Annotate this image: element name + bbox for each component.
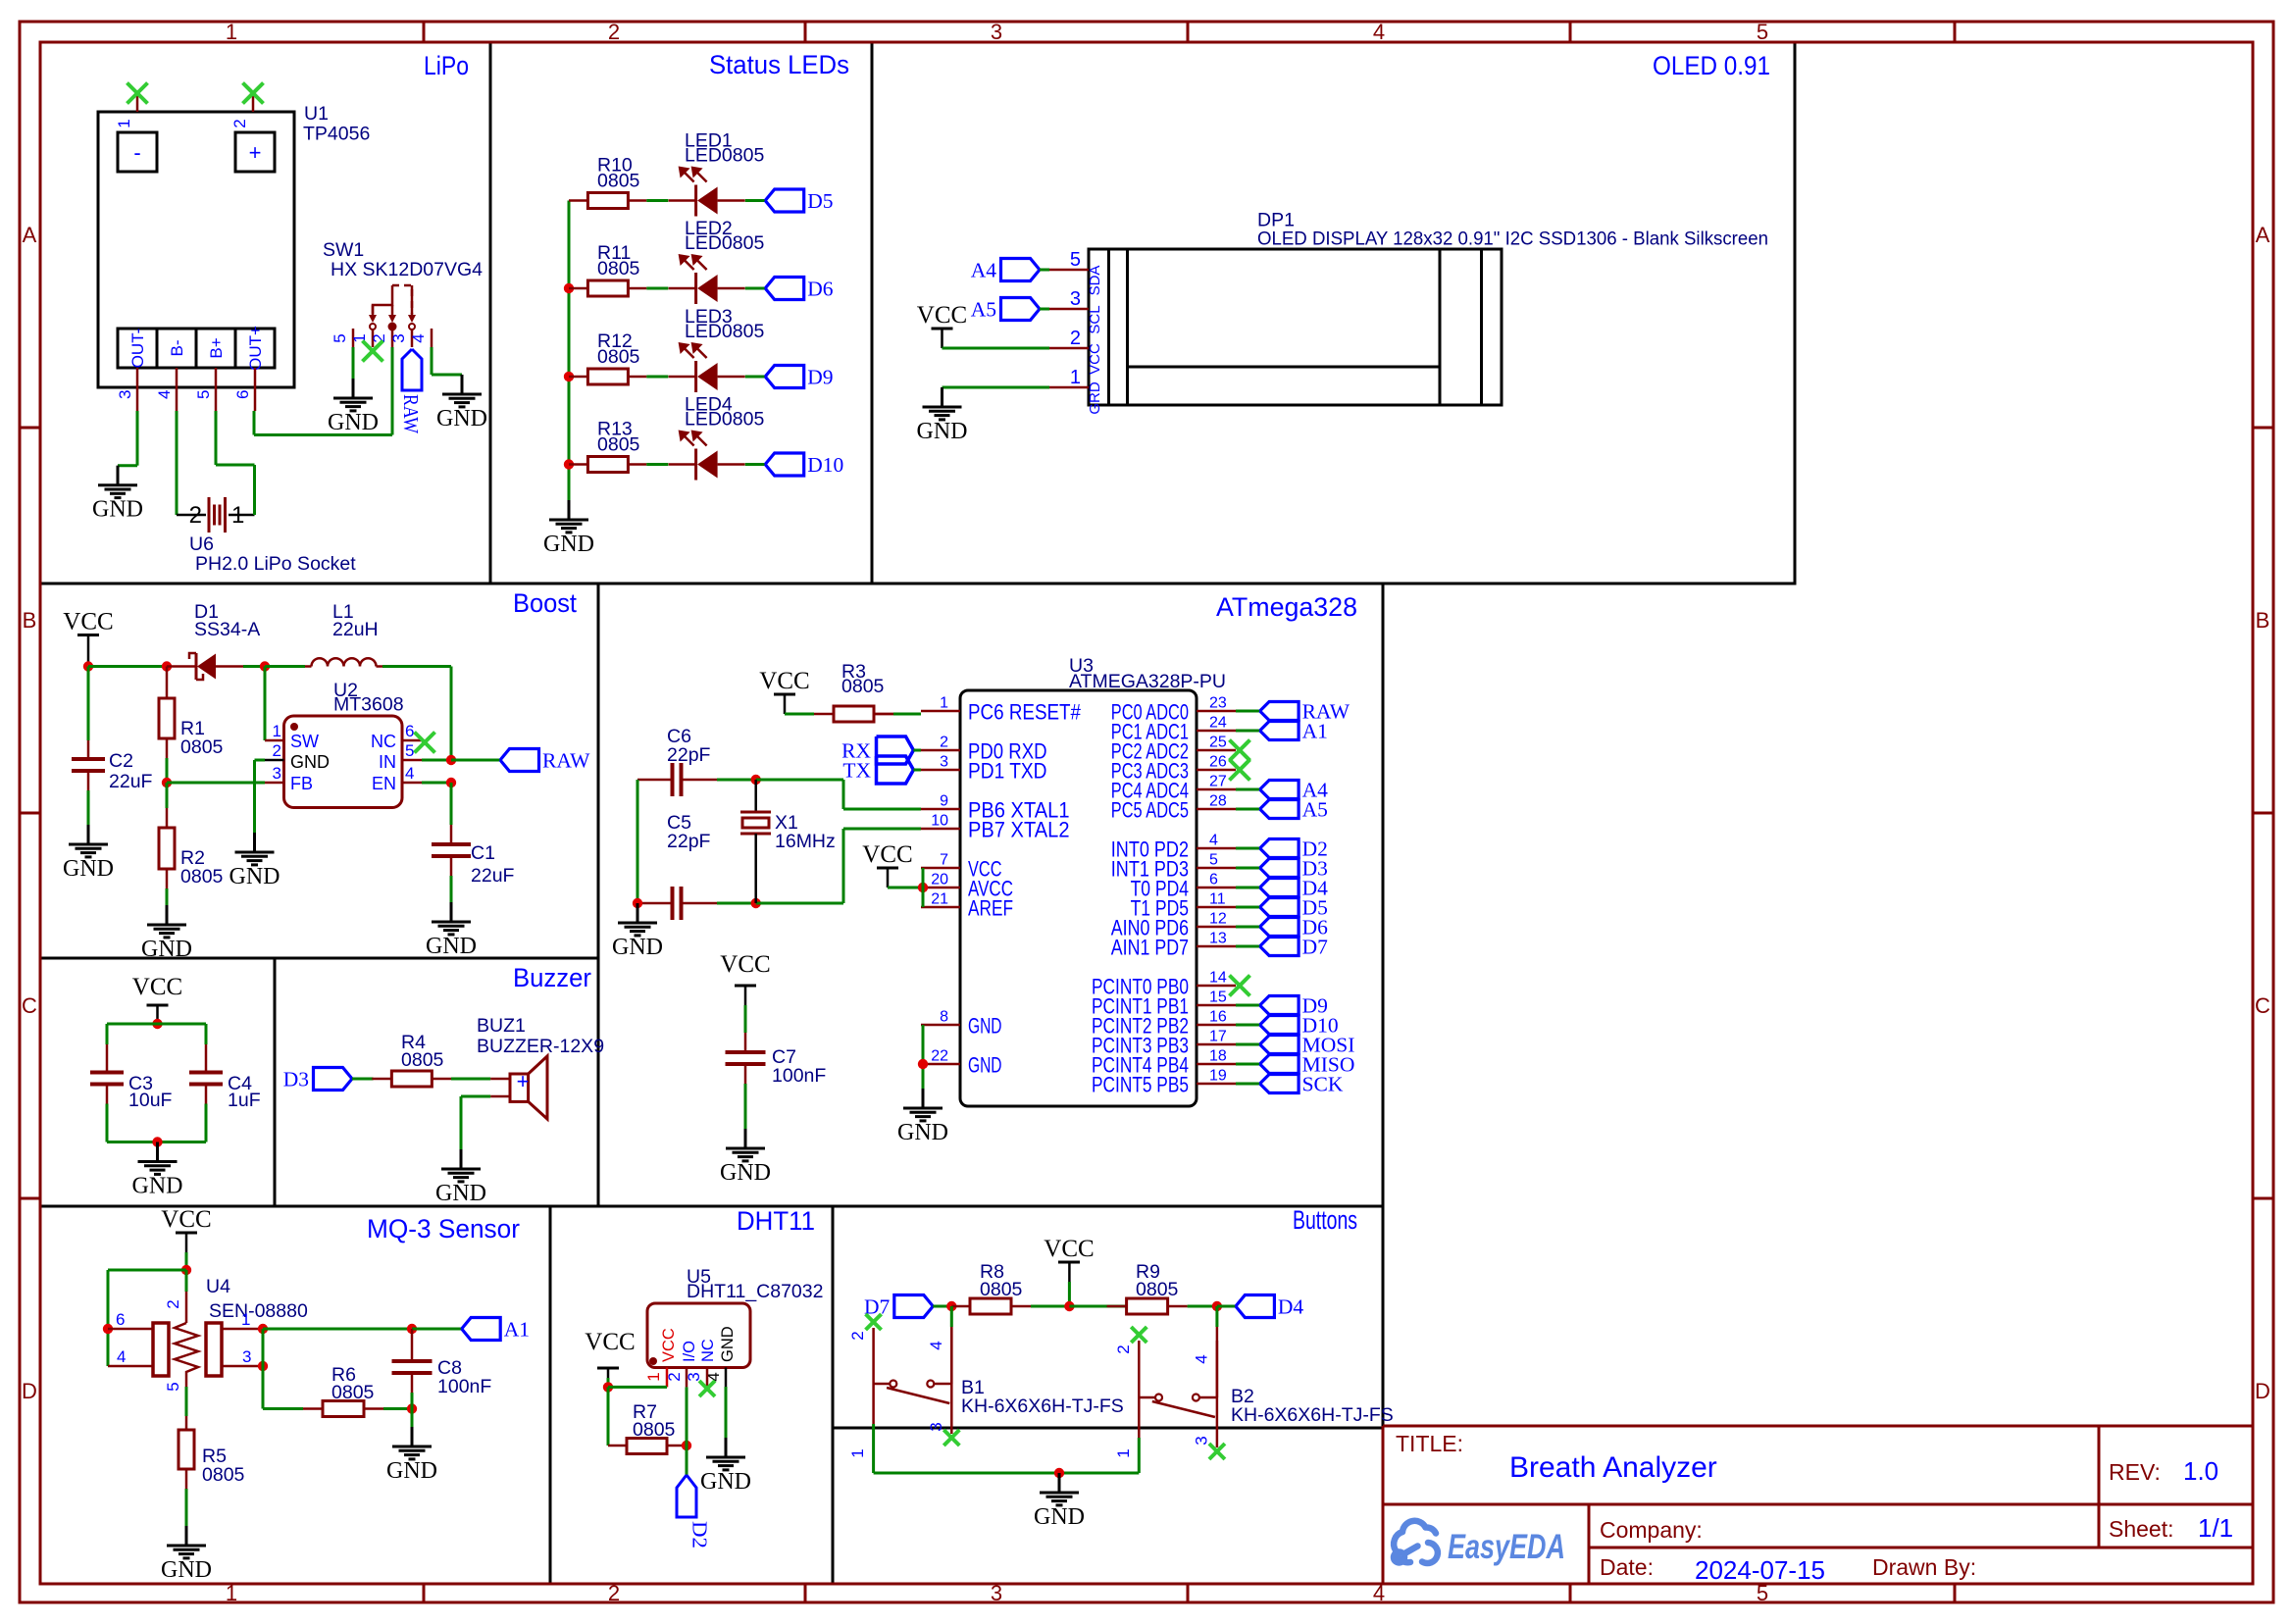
svg-text:GND: GND <box>426 934 477 959</box>
svg-text:5: 5 <box>194 390 213 399</box>
svg-text:GND: GND <box>720 1160 771 1186</box>
svg-text:22pF: 22pF <box>667 831 711 852</box>
svg-text:3: 3 <box>242 1347 251 1366</box>
svg-text:KH-6X6X6H-TJ-FS: KH-6X6X6H-TJ-FS <box>961 1396 1124 1417</box>
svg-text:4: 4 <box>155 390 174 399</box>
svg-text:4: 4 <box>405 764 414 783</box>
svg-text:GND: GND <box>700 1469 751 1495</box>
svg-text:BUZ1: BUZ1 <box>477 1015 526 1037</box>
svg-text:Drawn By:: Drawn By: <box>1872 1554 1976 1580</box>
svg-text:OLED DISPLAY 128x32 0.91" I2C: OLED DISPLAY 128x32 0.91" I2C SSD1306 - … <box>1257 229 1768 250</box>
svg-text:16: 16 <box>1209 1009 1227 1026</box>
svg-text:3: 3 <box>940 754 948 771</box>
svg-text:GND: GND <box>161 1557 212 1583</box>
svg-text:Company:: Company: <box>1600 1517 1703 1543</box>
svg-text:0805: 0805 <box>980 1279 1023 1300</box>
svg-text:TP4056: TP4056 <box>303 124 370 145</box>
svg-text:GND: GND <box>1034 1504 1085 1530</box>
svg-text:A1: A1 <box>504 1318 530 1342</box>
svg-text:22pF: 22pF <box>667 744 711 766</box>
svg-text:DHT11_C87032: DHT11_C87032 <box>687 1281 823 1302</box>
svg-text:C: C <box>2255 993 2270 1018</box>
svg-text:-: - <box>133 140 140 165</box>
svg-text:22uF: 22uF <box>109 771 153 792</box>
svg-text:D5: D5 <box>807 189 833 213</box>
svg-text:EasyEDA: EasyEDA <box>1448 1528 1565 1566</box>
svg-text:12: 12 <box>1209 911 1227 928</box>
svg-text:RAW: RAW <box>399 394 423 434</box>
svg-text:13: 13 <box>1209 931 1227 947</box>
svg-text:4: 4 <box>927 1341 945 1349</box>
svg-text:2024-07-15: 2024-07-15 <box>1695 1555 1825 1585</box>
svg-text:+: + <box>517 1069 530 1093</box>
svg-text:6: 6 <box>405 722 414 740</box>
svg-text:Buzzer: Buzzer <box>513 963 591 992</box>
svg-text:GND: GND <box>435 1181 486 1206</box>
svg-text:GND: GND <box>719 1326 737 1362</box>
svg-text:3: 3 <box>927 1422 945 1431</box>
svg-text:AREF: AREF <box>968 896 1013 921</box>
svg-text:EN: EN <box>372 774 396 793</box>
svg-text:0805: 0805 <box>1136 1279 1179 1300</box>
svg-text:3: 3 <box>991 20 1002 44</box>
svg-text:2: 2 <box>940 735 948 751</box>
svg-text:1: 1 <box>273 722 281 740</box>
svg-text:1: 1 <box>231 502 244 529</box>
svg-text:22uH: 22uH <box>332 619 379 640</box>
svg-text:OUT-: OUT- <box>128 329 147 369</box>
svg-text:SW1: SW1 <box>323 239 364 261</box>
svg-text:D: D <box>22 1379 37 1403</box>
svg-text:3: 3 <box>116 390 134 399</box>
svg-text:4: 4 <box>1373 1581 1385 1605</box>
svg-text:1.0: 1.0 <box>2183 1456 2218 1486</box>
svg-text:2: 2 <box>370 333 388 342</box>
svg-text:10: 10 <box>931 813 948 830</box>
svg-text:0805: 0805 <box>401 1049 444 1071</box>
svg-text:2: 2 <box>164 1299 182 1308</box>
svg-text:MT3608: MT3608 <box>333 694 404 716</box>
svg-text:3: 3 <box>1070 288 1081 310</box>
svg-text:D: D <box>2255 1379 2270 1403</box>
svg-text:I/O: I/O <box>681 1341 698 1362</box>
svg-text:15: 15 <box>1209 990 1227 1006</box>
svg-text:GND: GND <box>968 1053 1002 1078</box>
svg-text:TITLE:: TITLE: <box>1396 1431 1463 1456</box>
svg-text:GND: GND <box>328 410 379 435</box>
svg-text:4: 4 <box>1192 1354 1210 1363</box>
svg-text:1: 1 <box>241 1310 250 1329</box>
svg-text:PC5 ADC5: PC5 ADC5 <box>1111 798 1189 823</box>
svg-text:22: 22 <box>931 1048 948 1065</box>
svg-text:D6: D6 <box>807 278 834 301</box>
svg-text:1/1: 1/1 <box>2198 1513 2233 1543</box>
svg-text:27: 27 <box>1209 774 1227 790</box>
svg-text:Breath Analyzer: Breath Analyzer <box>1509 1451 1717 1484</box>
svg-text:A1: A1 <box>1302 720 1328 743</box>
svg-text:4: 4 <box>117 1347 126 1366</box>
svg-text:1: 1 <box>848 1448 867 1457</box>
svg-text:U6: U6 <box>189 533 214 555</box>
svg-text:0805: 0805 <box>331 1382 375 1403</box>
svg-text:0805: 0805 <box>202 1464 245 1486</box>
svg-text:B: B <box>23 608 37 633</box>
svg-text:A4: A4 <box>971 259 997 282</box>
svg-text:C: C <box>22 993 37 1018</box>
svg-text:2: 2 <box>1070 328 1081 349</box>
svg-text:0805: 0805 <box>597 171 640 192</box>
svg-text:24: 24 <box>1209 715 1227 732</box>
svg-text:GND: GND <box>897 1120 948 1145</box>
svg-text:0805: 0805 <box>597 258 640 279</box>
svg-text:17: 17 <box>1209 1029 1227 1045</box>
svg-text:1: 1 <box>226 20 237 44</box>
svg-text:GND: GND <box>63 856 114 882</box>
svg-text:7: 7 <box>940 852 948 869</box>
svg-text:REV:: REV: <box>2109 1459 2161 1485</box>
svg-text:VCC: VCC <box>759 668 809 694</box>
svg-text:OUT+: OUT+ <box>246 326 265 371</box>
svg-text:B+: B+ <box>207 337 226 358</box>
svg-text:GND: GND <box>229 864 280 889</box>
svg-text:SDA: SDA <box>1087 266 1103 296</box>
svg-text:PCINT5 PB5: PCINT5 PB5 <box>1092 1073 1189 1097</box>
svg-text:2: 2 <box>1114 1345 1133 1353</box>
svg-text:Boost: Boost <box>513 588 577 618</box>
svg-text:BUZZER-12X9: BUZZER-12X9 <box>477 1036 604 1057</box>
svg-text:VCC: VCC <box>132 974 182 1000</box>
svg-text:1uF: 1uF <box>228 1090 261 1111</box>
svg-text:PB7 XTAL2: PB7 XTAL2 <box>968 818 1070 842</box>
svg-text:SEN-08880: SEN-08880 <box>209 1300 308 1322</box>
svg-text:+: + <box>249 140 262 165</box>
svg-text:A5: A5 <box>971 298 996 322</box>
svg-text:TX: TX <box>842 759 871 783</box>
svg-text:D7: D7 <box>1302 936 1329 959</box>
svg-text:Sheet:: Sheet: <box>2109 1516 2174 1542</box>
svg-text:KH-6X6X6H-TJ-FS: KH-6X6X6H-TJ-FS <box>1231 1404 1394 1426</box>
svg-text:5: 5 <box>1757 20 1768 44</box>
svg-text:25: 25 <box>1209 735 1227 751</box>
svg-text:Status LEDs: Status LEDs <box>709 50 849 79</box>
svg-text:VCC: VCC <box>1044 1236 1094 1262</box>
svg-text:A: A <box>23 223 37 247</box>
svg-text:5: 5 <box>405 741 414 760</box>
svg-text:GND: GND <box>436 406 487 431</box>
svg-text:FB: FB <box>290 774 313 793</box>
svg-text:SCK: SCK <box>1302 1073 1344 1096</box>
svg-text:5: 5 <box>331 333 349 342</box>
svg-text:20: 20 <box>931 872 948 888</box>
svg-text:OLED 0.91: OLED 0.91 <box>1653 51 1770 80</box>
svg-text:0805: 0805 <box>841 676 885 697</box>
svg-text:GND: GND <box>386 1458 437 1484</box>
svg-text:C2: C2 <box>109 750 133 772</box>
svg-text:100nF: 100nF <box>437 1376 491 1397</box>
svg-text:B-: B- <box>168 340 186 357</box>
svg-text:3: 3 <box>991 1581 1002 1605</box>
svg-text:4: 4 <box>409 333 428 342</box>
svg-text:A: A <box>2256 223 2270 247</box>
svg-text:D3: D3 <box>283 1068 309 1091</box>
svg-text:Buttons: Buttons <box>1293 1205 1357 1235</box>
svg-text:DHT11: DHT11 <box>737 1206 815 1236</box>
svg-text:23: 23 <box>1209 695 1227 712</box>
svg-text:GND: GND <box>543 532 594 557</box>
svg-text:GND: GND <box>132 1174 183 1199</box>
svg-text:A5: A5 <box>1302 798 1328 822</box>
svg-text:0805: 0805 <box>597 346 640 368</box>
svg-text:1: 1 <box>644 1372 663 1381</box>
svg-text:U1: U1 <box>304 103 329 125</box>
svg-text:21: 21 <box>931 891 948 908</box>
svg-text:9: 9 <box>940 793 948 810</box>
svg-text:VCC: VCC <box>862 841 912 868</box>
svg-text:0805: 0805 <box>180 866 224 888</box>
svg-text:1: 1 <box>1070 367 1081 388</box>
svg-text:Date:: Date: <box>1600 1554 1654 1580</box>
svg-text:PC6 RESET#: PC6 RESET# <box>968 700 1081 725</box>
svg-text:SS34-A: SS34-A <box>194 619 260 640</box>
svg-text:VCC: VCC <box>660 1328 678 1362</box>
svg-text:SW: SW <box>290 732 319 751</box>
svg-text:VCC: VCC <box>1087 343 1103 375</box>
svg-text:GND: GND <box>968 1014 1002 1039</box>
svg-text:0805: 0805 <box>633 1419 676 1441</box>
svg-text:VCC: VCC <box>720 951 770 978</box>
svg-text:LED0805: LED0805 <box>685 409 764 431</box>
svg-text:LED0805: LED0805 <box>685 321 764 342</box>
svg-text:5: 5 <box>1209 852 1218 869</box>
svg-text:SCL: SCL <box>1087 305 1103 333</box>
svg-text:16MHz: 16MHz <box>775 831 836 852</box>
svg-text:2: 2 <box>848 1331 867 1340</box>
svg-text:2: 2 <box>608 1581 620 1605</box>
svg-text:18: 18 <box>1209 1048 1227 1065</box>
svg-text:AIN1 PD7: AIN1 PD7 <box>1111 936 1189 960</box>
svg-text:6: 6 <box>1209 872 1218 888</box>
svg-text:0805: 0805 <box>597 434 640 456</box>
svg-text:GND: GND <box>612 935 663 960</box>
svg-text:6: 6 <box>233 390 252 399</box>
svg-text:GND: GND <box>290 752 330 772</box>
svg-text:4: 4 <box>1373 20 1385 44</box>
svg-text:VCC: VCC <box>917 302 967 329</box>
svg-text:NC: NC <box>699 1339 717 1362</box>
svg-text:IN: IN <box>379 752 396 772</box>
svg-text:VCC: VCC <box>63 609 113 635</box>
svg-text:4: 4 <box>1209 833 1218 849</box>
svg-text:DP1: DP1 <box>1257 210 1295 231</box>
svg-text:HX SK12D07VG4: HX SK12D07VG4 <box>331 259 483 280</box>
svg-text:8: 8 <box>940 1009 948 1026</box>
svg-text:0805: 0805 <box>180 736 224 758</box>
svg-text:D9: D9 <box>807 366 833 389</box>
svg-text:1: 1 <box>115 119 133 127</box>
svg-text:2: 2 <box>230 119 249 127</box>
svg-text:GND: GND <box>917 419 968 444</box>
svg-text:U4: U4 <box>206 1276 230 1297</box>
svg-text:2: 2 <box>608 20 620 44</box>
svg-text:26: 26 <box>1209 754 1227 771</box>
svg-text:5: 5 <box>1070 249 1081 271</box>
svg-text:LED0805: LED0805 <box>685 232 764 254</box>
svg-text:B: B <box>2256 608 2270 633</box>
svg-text:ATMEGA328P-PU: ATMEGA328P-PU <box>1069 671 1226 692</box>
svg-text:PH2.0 LiPo Socket: PH2.0 LiPo Socket <box>195 553 356 575</box>
svg-text:PD1 TXD: PD1 TXD <box>968 759 1047 784</box>
svg-text:ATmega328: ATmega328 <box>1216 592 1357 622</box>
svg-text:GRD: GRD <box>1087 381 1103 415</box>
svg-text:100nF: 100nF <box>772 1065 826 1087</box>
svg-text:3: 3 <box>1192 1436 1210 1445</box>
svg-text:14: 14 <box>1209 970 1227 987</box>
svg-text:19: 19 <box>1209 1068 1227 1085</box>
svg-text:D2: D2 <box>688 1521 712 1548</box>
svg-text:6: 6 <box>116 1310 125 1329</box>
svg-text:2: 2 <box>273 741 281 760</box>
svg-text:GND: GND <box>92 497 143 523</box>
svg-text:NC: NC <box>371 732 396 751</box>
svg-text:1: 1 <box>350 333 369 342</box>
svg-text:D4: D4 <box>1278 1295 1304 1319</box>
svg-text:LiPo: LiPo <box>424 51 469 80</box>
svg-text:3: 3 <box>273 764 281 783</box>
svg-text:3: 3 <box>389 333 408 342</box>
svg-text:1: 1 <box>1114 1448 1133 1457</box>
svg-text:22uF: 22uF <box>471 865 515 887</box>
svg-text:C1: C1 <box>471 842 495 864</box>
svg-text:LED0805: LED0805 <box>685 145 764 167</box>
svg-text:GND: GND <box>141 937 192 962</box>
svg-text:VCC: VCC <box>161 1206 211 1233</box>
svg-text:D10: D10 <box>807 453 843 477</box>
svg-text:5: 5 <box>164 1382 182 1391</box>
svg-text:VCC: VCC <box>585 1329 635 1355</box>
svg-text:RAW: RAW <box>542 749 590 773</box>
svg-text:MQ-3 Sensor: MQ-3 Sensor <box>367 1214 520 1243</box>
svg-text:2: 2 <box>189 502 202 529</box>
svg-text:28: 28 <box>1209 793 1227 810</box>
svg-text:11: 11 <box>1209 891 1226 908</box>
svg-text:1: 1 <box>226 1581 237 1605</box>
svg-text:1: 1 <box>940 695 948 712</box>
svg-text:10uF: 10uF <box>128 1090 173 1111</box>
